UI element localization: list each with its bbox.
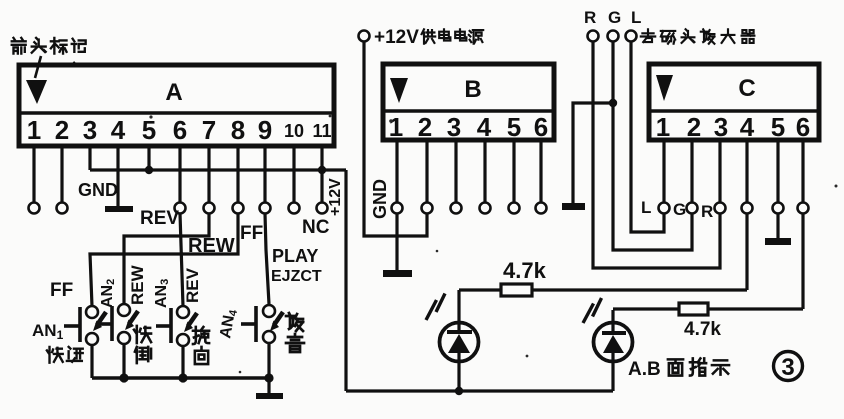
connector block B xyxy=(383,64,554,140)
terminal A10 xyxy=(289,203,300,214)
ground B pin1 xyxy=(383,270,412,277)
terminal A9 xyxy=(260,203,271,214)
svg-text:6: 6 xyxy=(173,115,187,145)
svg-text:R: R xyxy=(701,202,713,221)
terminal G xyxy=(608,31,619,42)
terminal A1 xyxy=(29,203,40,214)
svg-text:7: 7 xyxy=(202,115,216,145)
svg-text:1: 1 xyxy=(27,115,41,145)
svg-text:2: 2 xyxy=(55,115,69,145)
wire FF to AN1 xyxy=(90,214,238,307)
svg-text:GND: GND xyxy=(370,179,390,219)
terminal A8 xyxy=(233,203,244,214)
svg-text:6: 6 xyxy=(534,112,548,142)
svg-text:4.7k: 4.7k xyxy=(684,319,721,340)
junction AN4 xyxy=(264,373,273,382)
tick mark xyxy=(71,62,75,66)
wire R2 to C pin6 xyxy=(708,307,803,310)
svg-text:3: 3 xyxy=(83,115,97,145)
ground G xyxy=(562,203,585,210)
terminal C4 xyxy=(742,203,753,214)
junction A pin5 xyxy=(145,166,153,174)
ground A pin4 xyxy=(105,206,133,212)
wire PLAY to AN4 xyxy=(265,214,269,305)
wire A pin10 xyxy=(292,146,295,203)
label 放音 xyxy=(286,313,304,352)
svg-text:10: 10 xyxy=(284,121,304,141)
svg-text:2: 2 xyxy=(687,112,701,142)
svg-text:5: 5 xyxy=(142,115,156,145)
wire A pin8 xyxy=(236,146,239,203)
+12V bottom bus xyxy=(346,389,613,392)
wire LED1 to resistor R1 xyxy=(459,288,501,291)
terminal C3 xyxy=(715,203,726,214)
wire AN4 to ground bus xyxy=(267,343,270,378)
orientation arrow A xyxy=(26,80,47,104)
wire A pin6 xyxy=(178,146,181,203)
terminal A6 xyxy=(175,203,186,214)
terminal C6 xyxy=(798,203,809,214)
label 去磁头放大器 xyxy=(641,29,755,43)
wire A pin11 xyxy=(320,146,323,203)
svg-text:R: R xyxy=(584,8,596,27)
svg-text:PLAY: PLAY xyxy=(272,246,318,266)
terminal B4 xyxy=(480,203,491,214)
label 快倒 xyxy=(134,326,151,363)
wire C pin4 xyxy=(745,140,748,203)
terminal B1 xyxy=(392,203,403,214)
resistor R1 4.7k xyxy=(501,284,532,296)
label A.B面指示 xyxy=(628,358,729,380)
LED D2 xyxy=(583,298,633,362)
ground C pin5 xyxy=(765,238,791,245)
terminal C2 xyxy=(687,203,698,214)
svg-text:6: 6 xyxy=(796,112,810,142)
svg-text:AN3: AN3 xyxy=(153,279,171,308)
pin numbers C xyxy=(656,112,810,142)
svg-text:3: 3 xyxy=(447,112,461,142)
wire B pin4 xyxy=(483,140,486,203)
junction AN3 xyxy=(178,373,187,382)
label 箭头标记 (arrow mark) xyxy=(12,38,86,54)
svg-text:B: B xyxy=(464,76,481,103)
wire B pin2 xyxy=(425,140,428,203)
wire L to C pin1 xyxy=(631,42,664,232)
label 换向 xyxy=(193,327,209,364)
junction AN2 xyxy=(119,373,128,382)
svg-text:C: C xyxy=(738,75,755,102)
svg-text:+12V: +12V xyxy=(327,178,344,216)
wire +12V down to LED bus xyxy=(344,170,347,391)
svg-text:REV: REV xyxy=(183,267,202,303)
junction A pin11 xyxy=(318,166,326,174)
terminal A2 xyxy=(57,203,68,214)
scan specks xyxy=(149,115,837,374)
terminal B6 xyxy=(536,203,547,214)
terminal C1 xyxy=(659,203,670,214)
terminal B2 xyxy=(422,203,433,214)
terminal +12V supply xyxy=(359,31,370,42)
wire C pin6 xyxy=(801,140,804,203)
wire C pin1 xyxy=(662,140,665,203)
wire B pin5 xyxy=(512,140,515,203)
svg-text:G: G xyxy=(608,8,621,27)
svg-text:A: A xyxy=(165,79,182,106)
terminal B5 xyxy=(509,203,520,214)
wire A pin7 xyxy=(207,146,210,203)
switch AN4 xyxy=(241,305,283,343)
svg-text:4: 4 xyxy=(477,112,492,142)
wire B pin1 to ground xyxy=(395,214,398,271)
svg-text:9: 9 xyxy=(258,115,272,145)
wire A pin3 xyxy=(88,146,91,170)
wire C pin4 down xyxy=(745,214,748,291)
LED D1 xyxy=(426,290,479,362)
+12V bus under A xyxy=(90,168,346,171)
wire A pin2 xyxy=(60,146,63,203)
wire A pin1 xyxy=(32,146,35,203)
connector block C xyxy=(649,64,819,140)
junction D1 bus xyxy=(455,387,463,395)
orientation arrow C xyxy=(656,75,673,101)
wire G to C pin2 xyxy=(613,42,692,250)
orientation arrow B xyxy=(390,78,408,103)
wire REW to AN2 xyxy=(124,214,209,305)
svg-text:3: 3 xyxy=(781,354,794,381)
svg-text:NC: NC xyxy=(302,217,330,238)
svg-text:REW: REW xyxy=(128,264,147,305)
connector block A xyxy=(19,65,334,146)
wire R to C pin3 xyxy=(593,42,720,268)
wire C pin6 down xyxy=(801,214,804,310)
svg-text:G: G xyxy=(673,200,686,219)
wire C pin2 xyxy=(690,140,693,203)
wire A pin4 to ground xyxy=(116,146,119,206)
svg-text:1: 1 xyxy=(656,112,670,142)
switch AN3 xyxy=(156,306,197,346)
svg-text:L: L xyxy=(641,198,651,217)
wire AN2 to ground bus xyxy=(122,344,125,378)
svg-text:AN4: AN4 xyxy=(217,307,240,340)
svg-text:4: 4 xyxy=(740,112,755,142)
svg-text:4.7k: 4.7k xyxy=(503,258,547,283)
wire B pin6 xyxy=(539,140,542,203)
wire B pin3 xyxy=(454,140,457,203)
terminal A11 xyxy=(317,203,328,214)
svg-text:+12V: +12V xyxy=(374,27,419,48)
svg-text:8: 8 xyxy=(231,115,245,145)
ground bus of switches xyxy=(92,376,269,380)
wire D2 to resistor R2 xyxy=(613,307,679,310)
svg-text:11: 11 xyxy=(312,121,331,141)
wire D1 to +12V bus xyxy=(457,353,460,391)
wire B pin1 xyxy=(395,140,398,203)
svg-text:GND: GND xyxy=(78,180,118,200)
svg-text:1: 1 xyxy=(389,112,403,142)
svg-text:EJZCT: EJZCT xyxy=(271,268,322,285)
wire A pin9 xyxy=(263,146,266,203)
svg-text:5: 5 xyxy=(771,112,785,142)
svg-text:4: 4 xyxy=(111,115,126,145)
label +12V供电电源 xyxy=(374,27,483,48)
label 快进 xyxy=(47,347,83,363)
svg-text:3: 3 xyxy=(714,112,728,142)
pin numbers B xyxy=(389,112,548,142)
terminal R xyxy=(588,31,599,42)
terminal A7 xyxy=(204,203,215,214)
wire G to ground xyxy=(573,103,613,203)
wire C pin5 to ground xyxy=(776,214,779,239)
terminal C5 xyxy=(773,203,784,214)
resistor R2 4.7k xyxy=(679,303,708,315)
junction G ground branch xyxy=(609,99,617,107)
svg-text:REV: REV xyxy=(140,208,179,229)
wire D2 to +12V bus xyxy=(611,353,614,391)
ground switches xyxy=(267,378,270,393)
svg-text:AN2: AN2 xyxy=(99,279,117,308)
wire +12V supply to B pin2 xyxy=(364,42,427,236)
wire AN3 to ground bus xyxy=(181,346,184,378)
wire A pin5 xyxy=(147,146,150,170)
svg-text:FF: FF xyxy=(50,280,73,301)
wire REV to AN3 xyxy=(180,214,183,307)
terminal B3 xyxy=(451,203,462,214)
pin numbers A xyxy=(27,115,332,145)
svg-text:AN1: AN1 xyxy=(32,321,64,342)
svg-text:2: 2 xyxy=(418,112,432,142)
wire R1 to C pin4 xyxy=(531,288,747,291)
svg-text:5: 5 xyxy=(507,112,521,142)
wire C pin5 xyxy=(776,140,779,203)
svg-text:L: L xyxy=(631,8,641,27)
switch AN1 xyxy=(64,306,106,345)
pointer line from label to arrow xyxy=(35,56,41,78)
wire AN1 to ground bus xyxy=(90,345,93,378)
figure number 3 xyxy=(774,352,803,382)
terminal L xyxy=(626,31,637,42)
svg-text:A.B: A.B xyxy=(628,359,661,380)
wire C pin3 xyxy=(718,140,721,203)
svg-text:FF: FF xyxy=(240,223,263,244)
switch AN2 xyxy=(97,304,138,344)
